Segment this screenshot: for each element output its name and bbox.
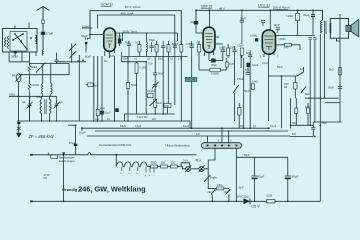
wire 1nF stub (119, 33, 121, 39)
svg-text:30μF: 30μF (190, 20, 196, 24)
wire box left vertical (63, 155, 65, 202)
capacitor col J (221, 46, 225, 58)
resistor col G (180, 45, 183, 53)
svg-text:PA2: PA2 (12, 74, 17, 78)
svg-text:5kΩ: 5kΩ (329, 68, 334, 72)
wire (178, 166, 181, 168)
IF transformer Tr1 winding a (40, 99, 42, 113)
capacitor 0.1uF beside tube3 (261, 21, 265, 27)
wire into lamp row (180, 167, 186, 169)
capacitor 1nF anode tube1 (118, 39, 122, 44)
wire transformer top (321, 19, 324, 22)
coil IF1 primary top (146, 42, 147, 52)
resistor col B (138, 45, 141, 53)
wire h 125.3 (290, 124, 313, 126)
electrolytic 30uF mid (211, 59, 215, 63)
resistor 0.2M (210, 68, 220, 72)
capacitor 4uF box (88, 83, 93, 87)
svg-text:50kΩ: 50kΩ (120, 125, 126, 128)
wire (158, 166, 161, 168)
antenna plug (42, 20, 44, 24)
svg-text:3nF: 3nF (125, 40, 130, 44)
capacitor IF1 left (28, 96, 32, 121)
svg-text:30Ω: 30Ω (161, 162, 166, 165)
svg-text:50pF: 50pF (158, 72, 164, 76)
wire (127, 62, 129, 83)
trimmer arrow a (69, 44, 76, 51)
capacitor osc (153, 73, 157, 75)
heater resistor winding (117, 162, 148, 167)
wire right area (280, 76, 282, 128)
svg-text:30μF: 30μF (211, 63, 217, 67)
volume pot arrow (233, 85, 238, 93)
resistor 700k vert (294, 83, 297, 90)
resistor 5k right (339, 68, 342, 75)
wire cap link (81, 128, 83, 131)
capacitor col O (248, 50, 252, 62)
wire (168, 166, 171, 168)
wire h157.3 (236, 156, 287, 158)
capacitor col H (190, 41, 194, 56)
svg-text:5nF: 5nF (240, 125, 245, 128)
capacitor right mid (311, 127, 315, 129)
svg-text:100 P: 100 P (274, 24, 281, 27)
component row col A caps (127, 41, 131, 56)
svg-text:5kΩ: 5kΩ (305, 93, 310, 96)
wire (299, 45, 301, 50)
svg-text:30μF: 30μF (322, 122, 328, 125)
svg-text:UCL 11: UCL 11 (258, 3, 270, 7)
wire: cathode link row y56.5 (123, 56, 188, 58)
capacitor 66pF grid (85, 38, 90, 40)
svg-text:0,1MΩ: 0,1MΩ (250, 35, 257, 38)
wire (28, 73, 30, 84)
coil osc (41, 84, 42, 94)
padder cap column (56, 53, 58, 61)
capacitor blob to ground (17, 122, 20, 124)
strip pins (207, 145, 238, 147)
resistor 1M vert (251, 84, 254, 90)
wire: grid branch down (89, 35, 91, 39)
speaker voice coil lines (349, 24, 351, 26)
wire: AGC left column (18, 82, 20, 121)
svg-text:50nF: 50nF (328, 86, 334, 90)
osc coil assembly (154, 56, 156, 73)
wire below 140ohm (297, 21, 299, 36)
wire (204, 169, 208, 189)
wire: +anode rail left 10V 10mA (90, 11, 181, 45)
svg-text:50kΩ: 50kΩ (131, 83, 137, 87)
wire grid cap column (85, 44, 87, 52)
small box tAD (164, 104, 171, 108)
capacitor blob on box edge (14, 51, 17, 53)
svg-text:4nF: 4nF (110, 55, 115, 58)
wire (267, 76, 269, 121)
svg-text:50μF: 50μF (244, 154, 250, 157)
speaker magnet (346, 25, 351, 31)
capacitor 0.5uF (74, 144, 78, 146)
svg-text:5nF: 5nF (245, 68, 250, 72)
svg-text:1,5MΩ: 1,5MΩ (278, 38, 285, 41)
strip bottom leads (208, 148, 215, 169)
antenna A1 (37, 7, 50, 50)
wire (124, 114, 126, 121)
tube U2 electrodes (205, 34, 212, 50)
svg-text:0,1μF: 0,1μF (219, 46, 226, 50)
wire: oscillator row (29, 63, 69, 65)
chassis line top (31, 153, 197, 155)
switch contacts column mid (71, 44, 73, 62)
wire (220, 69, 227, 71)
resistor vert 0.05M (225, 62, 228, 67)
svg-text:5nF: 5nF (292, 133, 297, 136)
resistor col C (155, 45, 158, 53)
electrolytic cap 0.1uF (100, 111, 104, 115)
coil L1b left edge (5, 38, 6, 47)
wire h 136.4 right (290, 135, 313, 137)
band switch box S1 (3, 29, 38, 53)
svg-text:0,1μF: 0,1μF (135, 125, 142, 128)
capacitor IF1 right (55, 96, 59, 121)
svg-text:1kΩ: 1kΩ (157, 101, 162, 105)
wire h 102.7 (325, 102, 340, 104)
svg-text:Urdox-Widerstand: Urdox-Widerstand (165, 144, 190, 148)
tube U3 grid top feed (269, 11, 271, 30)
resistor 140 right of tube3 (285, 43, 292, 46)
wire transformer primary down (319, 34, 321, 201)
svg-text:0,1: 0,1 (135, 41, 139, 45)
heater taps (122, 167, 154, 173)
svg-text:GR/C150: GR/C150 (236, 195, 249, 199)
capacitor blob grid (85, 42, 87, 45)
svg-text:0,2MΩ: 0,2MΩ (211, 72, 219, 76)
wire: antenna into coil (41, 50, 44, 56)
dial lamp 2 (199, 166, 204, 171)
wire 0.2M resistor row (199, 69, 210, 71)
wire (224, 188, 229, 190)
wire vertical col79 (78, 55, 80, 121)
underline UCL11 (258, 6, 269, 8)
svg-text:50kΩ: 50kΩ (244, 90, 250, 93)
svg-text:1nF: 1nF (196, 133, 201, 136)
wire tube3 anode right (276, 44, 301, 46)
svg-text:0,1: 0,1 (196, 41, 200, 45)
wire (136, 62, 138, 63)
wire tube2 grid caps (215, 43, 223, 45)
output transformer T1 secondary (330, 23, 331, 33)
svg-text:2nF: 2nF (152, 118, 157, 121)
svg-text:50pF: 50pF (123, 59, 129, 61)
resistor col E (167, 45, 170, 53)
switch contact dots (12, 33, 32, 50)
selector arrow 110V (226, 190, 230, 195)
IF transformer Tr1 winding b (50, 99, 52, 113)
tube U2 pins (204, 52, 206, 56)
underline UCH11 (101, 5, 112, 7)
wire: lower left link (9, 61, 29, 63)
trimmer arrow IF1 right (54, 102, 60, 109)
svg-text:1kΩ: 1kΩ (292, 122, 297, 125)
wire: top components to h-row links (121, 52, 123, 62)
wire right verticals (309, 40, 311, 125)
svg-text:AF101: AF101 (147, 89, 155, 93)
svg-text:Zeichnungen: Zeichnungen (59, 159, 75, 163)
wire: bus y131 (95, 130, 288, 132)
output transformer T1 primary (320, 21, 321, 34)
junction arrow on chassis (62, 152, 66, 155)
svg-text:Grundig: Grundig (62, 188, 77, 192)
underline 200V42mA (273, 8, 289, 10)
svg-text:900Ω: 900Ω (151, 162, 157, 165)
wire (222, 58, 224, 61)
capacitor blob left of tube3 (255, 38, 258, 41)
resistor vert right mid (238, 108, 242, 116)
small resistors right column (295, 108, 298, 114)
svg-text:UBF 11: UBF 11 (201, 4, 213, 8)
switch contact to tone (297, 72, 304, 76)
coil osc2 (51, 84, 52, 94)
svg-text:0,1μF: 0,1μF (46, 32, 53, 36)
svg-text:1kΩ: 1kΩ (305, 105, 310, 109)
lamp bypass loop (181, 163, 190, 166)
junction tick (47, 153, 49, 155)
trimmer arrow b (70, 51, 77, 58)
svg-text:ZF = 468 kHz: ZF = 468 kHz (28, 134, 55, 139)
svg-text:280pF: 280pF (11, 55, 19, 59)
svg-text:2,5mA: 2,5mA (82, 24, 90, 28)
svg-text:30μF: 30μF (238, 186, 244, 189)
svg-text:125 V: 125 V (251, 205, 260, 209)
variable capacitor C-tune (16, 74, 21, 82)
trimmer arrow tuning (16, 74, 23, 82)
wire: grid lead tube1 (90, 34, 104, 36)
tube U1 pins (104, 51, 106, 56)
svg-text:50Ω: 50Ω (267, 194, 273, 198)
capacitor col F (173, 41, 177, 56)
capacitor 30uF top right (311, 15, 315, 17)
capacitor col D (161, 41, 165, 56)
svg-text:Regler: Regler (210, 177, 217, 180)
svg-text:4μF: 4μF (94, 84, 99, 88)
svg-text:140Ω: 140Ω (286, 14, 293, 18)
svg-text:Heizwiderstand 900 Ω/V: Heizwiderstand 900 Ω/V (99, 143, 131, 147)
wire: switch line y76 (268, 75, 297, 77)
trimmer osc (153, 85, 157, 87)
svg-text:2nF: 2nF (147, 59, 152, 61)
svg-text:220 V: 220 V (208, 191, 215, 194)
speaker LS frame (330, 19, 348, 39)
svg-text:760Ω: 760Ω (9, 93, 15, 97)
capacitor col L (232, 46, 236, 58)
terminal blob left top (30, 154, 33, 156)
wire: screen feed drop (297, 10, 299, 13)
wire: left bus cap to ground (18, 121, 20, 122)
svg-text:200V, 0mA: 200V, 0mA (123, 29, 138, 33)
svg-text:110V: 110V (224, 191, 230, 194)
svg-text:0,1MΩ: 0,1MΩ (31, 83, 39, 87)
svg-text:760Ω: 760Ω (36, 96, 42, 99)
electrolytic 30uF tube2 (194, 21, 198, 25)
wire: tuning row (19, 74, 69, 76)
wire speaker field line (339, 14, 341, 122)
wire regler row (208, 188, 216, 190)
resistor 50k vertical mid (127, 83, 130, 89)
svg-text:tAD: tAD (165, 104, 169, 108)
svg-text:50kΩ: 50kΩ (172, 42, 178, 46)
wire step (189, 121, 191, 128)
svg-text:48 V: 48 V (219, 6, 225, 10)
svg-text:50kΩ: 50kΩ (158, 59, 164, 61)
svg-text:0,3MΩ: 0,3MΩ (186, 42, 194, 46)
wire h 98.2 (305, 97, 339, 99)
wire: tube2 grid drop (208, 10, 210, 27)
electrolytic 50uF psu (285, 176, 291, 178)
capacitor blob row mid (115, 108, 119, 112)
capacitor antenna series (41, 32, 45, 35)
wire tube3 cathode region (267, 58, 269, 76)
capacitor 5nF row b (313, 37, 317, 39)
switch contact arm 1 (15, 34, 27, 49)
svg-text:kΩ: kΩ (284, 85, 287, 89)
heater feed vertical (115, 155, 117, 167)
capacitor 50nF right (338, 87, 342, 89)
anode row right of tube3 (276, 35, 315, 37)
coil osc core box (148, 94, 154, 98)
wire: 30uF drop (312, 10, 314, 14)
svg-text:1500: 1500 (217, 184, 223, 187)
wire strip lead to diode (235, 157, 237, 201)
svg-text:5nF: 5nF (246, 51, 251, 55)
svg-text:0,1μF: 0,1μF (79, 131, 86, 135)
resistor 140ohm vertical (296, 13, 300, 20)
wire (191, 168, 199, 170)
svg-text:1nF: 1nF (178, 59, 183, 61)
svg-text:0,1MΩ: 0,1MΩ (140, 67, 147, 70)
wire (114, 56, 116, 121)
wire: 200V,0mA branch tube1 anode (116, 33, 178, 41)
wire right-mid columns (191, 56, 193, 128)
wire columns from tube1 region down (93, 56, 95, 121)
svg-text:10 V, 10mA: 10 V, 10mA (125, 5, 140, 9)
resistor 1500 selector (216, 187, 223, 190)
teal highlight box (185, 77, 197, 81)
wire (167, 56, 169, 104)
capacitor 5nF left (246, 73, 251, 75)
tube U1 electrodes (106, 35, 113, 48)
svg-text:UCH 11: UCH 11 (101, 3, 114, 7)
svg-text:0,1μF: 0,1μF (252, 64, 259, 67)
svg-text:0,1μF: 0,1μF (262, 62, 269, 65)
resistor heater chain 1 (151, 165, 158, 168)
switch arm diagonal osc (36, 63, 46, 73)
dial lamp 1 (186, 166, 191, 171)
svg-text:0,1A: 0,1A (183, 160, 188, 163)
svg-text:246, GW, Weltklang: 246, GW, Weltklang (78, 184, 146, 193)
resistor 0.1M vertical (135, 63, 138, 74)
electrolytic 30uF psu (252, 176, 258, 178)
selector arrow 220V (211, 190, 215, 195)
IF1 winding connects (41, 96, 43, 99)
svg-text:AD: AD (104, 60, 108, 63)
wire: screen rail 48V 0mA (98, 15, 175, 46)
resistor 50ohm mains (267, 200, 276, 203)
speaker cone (351, 19, 359, 36)
svg-text:0,5MΩ: 0,5MΩ (237, 78, 244, 81)
svg-text:100: 100 (148, 62, 153, 66)
coil L2 right edge (36, 35, 37, 44)
wire frame bottom stub (336, 38, 340, 41)
trimmer cap row (150, 42, 154, 52)
chassis line bottom / mains rail (31, 200, 320, 202)
svg-text:0,5μF: 0,5μF (69, 141, 76, 145)
svg-text:0,05: 0,05 (229, 62, 235, 66)
switch contact arm 2 (13, 34, 23, 40)
svg-text:200 V, 42mA: 200 V, 42mA (273, 6, 290, 10)
resistor mid (96, 109, 99, 116)
terminal blob left bottom (30, 200, 33, 202)
svg-text:50pF: 50pF (240, 17, 246, 21)
wire: bus y136 (87, 135, 290, 137)
wire: AGC bus y121 (17, 120, 190, 122)
heater regler arrow (204, 175, 211, 182)
svg-text:48V, 0mA: 48V, 0mA (121, 12, 134, 16)
trimmer cross (17, 127, 21, 130)
svg-text:30μF: 30μF (303, 13, 310, 17)
svg-text:50kΩ: 50kΩ (31, 65, 37, 69)
variable cap osc (150, 99, 157, 106)
svg-text:1nF: 1nF (95, 118, 100, 121)
svg-text:2kΩ: 2kΩ (100, 106, 105, 110)
wire mid right (249, 62, 251, 128)
junction dot (17, 95, 19, 97)
svg-text:0,1μF: 0,1μF (104, 111, 111, 115)
svg-text:0,1μF: 0,1μF (237, 44, 244, 48)
svg-text:0,1μF Wb: 0,1μF Wb (137, 116, 148, 119)
svg-text:50pF: 50pF (149, 38, 155, 42)
wire: anode rail right 200V 42mA (196, 10, 323, 21)
coil L1 left edge (8, 36, 9, 49)
resistor lower (28, 84, 31, 92)
svg-text:50pF: 50pF (85, 55, 91, 59)
svg-text:30μF: 30μF (258, 175, 265, 179)
wire: top of IF1 (9, 95, 57, 97)
svg-text:0,1A: 0,1A (197, 160, 202, 163)
svg-text:6Ω: 6Ω (44, 176, 47, 180)
capacitor 50pF col N (240, 10, 244, 44)
tube U3 UCL11 envelope (262, 30, 275, 54)
resistor heater chain 2 (161, 165, 168, 168)
wire: 2.5mA underline (82, 27, 92, 29)
capacitor padder (54, 60, 58, 62)
resistor osc bottom (154, 99, 157, 107)
svg-text:50pF: 50pF (277, 66, 283, 69)
tube U3 electrodes (265, 36, 274, 50)
svg-text:Mechanische: Mechanische (59, 156, 75, 160)
resistor heater chain 3 (171, 165, 178, 168)
svg-text:140: 140 (284, 46, 289, 50)
wires below switch box (8, 52, 10, 62)
wire h 114 (125, 113, 175, 115)
wire (247, 62, 249, 73)
transformer core (324, 21, 326, 34)
wire: bus y128 (82, 127, 270, 129)
wire h at 61.7 (122, 61, 147, 63)
resistor col I (198, 45, 201, 53)
wire: mid link row y61 (57, 61, 87, 63)
svg-text:50μF: 50μF (292, 175, 299, 179)
resistor 50k vertical (28, 65, 31, 72)
junction dots row (71, 59, 84, 62)
